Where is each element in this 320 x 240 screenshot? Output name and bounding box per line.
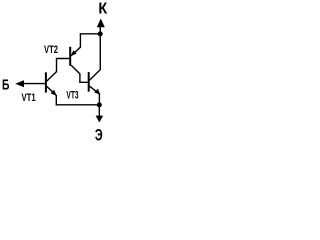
terminal arrow K bbox=[97, 19, 105, 28]
svg-text:VT3: VT3 bbox=[66, 89, 78, 101]
wire: Б to VT1 base bbox=[24, 83, 45, 85]
svg-text:VT2: VT2 bbox=[44, 44, 58, 56]
wire: K rail bbox=[99, 26, 101, 70]
terminal arrow Э bbox=[96, 116, 104, 123]
wire: VT2 collector to VT3 base bbox=[80, 74, 88, 83]
wire: Э stem bbox=[98, 105, 100, 116]
junction dot (K node) bbox=[98, 31, 103, 36]
transistor VT3 (NPN) bbox=[88, 70, 101, 95]
transistor VT1 (NPN) bbox=[45, 72, 57, 96]
svg-text:Б: Б bbox=[2, 77, 10, 93]
transistor VT2 (PNP) bbox=[69, 47, 80, 74]
svg-text:Э: Э bbox=[95, 127, 103, 145]
wire: VT1 collector to VT2 base bbox=[57, 59, 70, 73]
svg-text:VT1: VT1 bbox=[22, 92, 36, 104]
junction dot (Э node) bbox=[97, 102, 102, 107]
svg-text:К: К bbox=[98, 1, 107, 18]
terminal arrow Б bbox=[15, 80, 24, 87]
wire: emitter rail bbox=[56, 95, 99, 105]
wire: VT2 emitter to K rail bbox=[80, 34, 100, 48]
wire: VT3 emitter down to dot bbox=[98, 94, 100, 105]
